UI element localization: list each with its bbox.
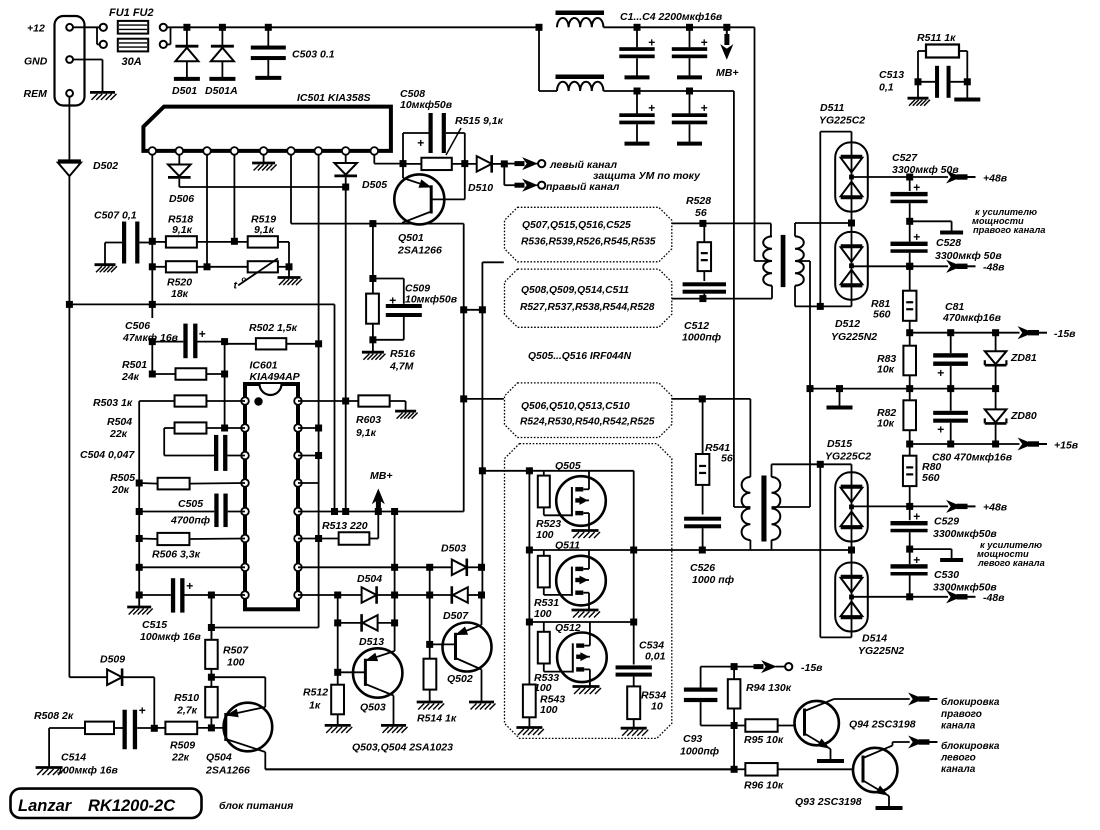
resistor R503 bbox=[175, 395, 207, 406]
svg-text:ZD80: ZD80 bbox=[1010, 410, 1037, 422]
IC601 pin R5 bbox=[294, 508, 302, 516]
IC501 pin5 ground bbox=[263, 155, 265, 163]
wire -15v terminal row bbox=[731, 663, 738, 670]
wire left bus x139 down bbox=[138, 401, 140, 607]
output arrow Q94 bbox=[910, 694, 923, 705]
svg-text:YG225C2: YG225C2 bbox=[825, 451, 871, 463]
wire IC501 pin9 to Q501 emitter junction bbox=[373, 155, 375, 164]
diode D509 bbox=[107, 669, 122, 685]
transistor Q505 MOSFET bbox=[556, 476, 606, 526]
capacitor C506 bbox=[183, 324, 187, 359]
resistor R513 bbox=[339, 532, 370, 545]
rectifier D515 YG225C2 bbox=[851, 464, 853, 472]
svg-text:+: + bbox=[186, 579, 193, 593]
svg-text:D503: D503 bbox=[441, 543, 466, 555]
svg-text:Q505: Q505 bbox=[555, 460, 581, 472]
ground at left bus bbox=[127, 606, 151, 609]
svg-text:R505: R505 bbox=[110, 472, 135, 484]
svg-text:C527: C527 bbox=[892, 152, 918, 164]
svg-text:R527,R537,R538,R544,R528: R527,R537,R538,R544,R528 bbox=[520, 302, 655, 313]
svg-text:1000пф: 1000пф bbox=[682, 332, 721, 344]
inductor L2 bbox=[557, 82, 603, 91]
wire IC601 pinR5 row bbox=[298, 511, 464, 513]
transistor Q512 MOSFET bbox=[557, 633, 607, 683]
svg-text:R514 1к: R514 1к bbox=[417, 713, 457, 725]
wire drain bus x633 down bbox=[633, 471, 635, 665]
svg-text:C93: C93 bbox=[683, 733, 702, 745]
resistor R541 bbox=[696, 454, 710, 485]
wire Q504 collector long row bbox=[265, 768, 734, 770]
wire -48v bottom row bbox=[852, 596, 910, 598]
capacitor C527 bbox=[909, 177, 911, 191]
wire row R7 to D503 bbox=[298, 566, 452, 568]
svg-text:-48в: -48в bbox=[983, 592, 1005, 604]
fuse terminal circles left bbox=[100, 24, 107, 31]
wire lower rail bbox=[539, 90, 557, 92]
diode D501 bbox=[183, 24, 190, 31]
svg-text:MB+: MB+ bbox=[716, 67, 738, 79]
IC601 pin R8 bbox=[294, 591, 302, 599]
ground at thermistor bbox=[288, 267, 290, 278]
resistor R508 bbox=[85, 722, 114, 735]
svg-text:Q501: Q501 bbox=[398, 232, 424, 244]
svg-text:D514: D514 bbox=[862, 633, 887, 645]
svg-text:C526: C526 bbox=[690, 562, 715, 574]
resistor R502 bbox=[256, 338, 286, 349]
svg-text:18к: 18к bbox=[171, 288, 189, 300]
wire mid tap to chassis right ch bbox=[910, 220, 952, 222]
ground at GND bbox=[90, 91, 115, 94]
wire gate lead Q512 bbox=[544, 671, 573, 673]
ground at Q505 bbox=[572, 529, 599, 532]
resistor R520 bbox=[166, 261, 197, 272]
diode D504 bbox=[362, 587, 377, 603]
transistor Q503 2SA1023 bbox=[353, 648, 402, 697]
wire REM pin down bbox=[68, 97, 70, 161]
wire T2 secondary center tap bbox=[772, 506, 811, 508]
capacitor C503 bbox=[265, 24, 272, 31]
svg-text:100мкф 16в: 100мкф 16в bbox=[57, 765, 118, 777]
zener ZD81 bbox=[995, 333, 997, 352]
wire C515 junction down to R507 bbox=[210, 595, 212, 640]
svg-text:YG225N2: YG225N2 bbox=[858, 645, 904, 657]
svg-text:R506 3,3к: R506 3,3к bbox=[152, 549, 201, 561]
svg-text:R511 1к: R511 1к bbox=[917, 32, 956, 44]
svg-text:R603: R603 bbox=[356, 414, 381, 426]
svg-text:C503 0.1: C503 0.1 bbox=[292, 49, 335, 61]
svg-text:10к: 10к bbox=[877, 418, 895, 430]
diode D510 bbox=[477, 156, 492, 172]
IC PWM IC601 KIA494AP body bbox=[245, 384, 298, 609]
svg-text:10мкф50в: 10мкф50в bbox=[405, 294, 458, 306]
svg-text:560: 560 bbox=[922, 472, 940, 484]
svg-text:+48в: +48в bbox=[983, 173, 1008, 185]
logo frame Lanzar RK1200-2C bbox=[11, 789, 202, 818]
svg-text:D506: D506 bbox=[169, 193, 194, 205]
inductor L2 core bbox=[556, 75, 605, 80]
svg-text:9,1к: 9,1к bbox=[254, 224, 275, 236]
transformer T1 bbox=[763, 236, 772, 285]
svg-text:R520: R520 bbox=[167, 277, 192, 289]
diode D507 bbox=[450, 586, 453, 604]
IC601 pin L2 bbox=[241, 424, 249, 432]
wire D515 bottom junction bbox=[851, 542, 853, 563]
resistor R501 bbox=[176, 368, 207, 380]
resistor R506 bbox=[157, 533, 189, 545]
svg-text:+: + bbox=[937, 423, 944, 437]
svg-text:Q502: Q502 bbox=[447, 673, 473, 685]
capacitor C528 bbox=[909, 221, 911, 241]
svg-text:блокировка: блокировка bbox=[941, 740, 1000, 752]
svg-text:2SA1266: 2SA1266 bbox=[205, 765, 250, 777]
svg-text:+: + bbox=[913, 553, 920, 567]
wire gate row Q505 bbox=[479, 467, 486, 474]
wire IC501 pin6 down to Q501 collector row bbox=[290, 155, 292, 224]
svg-text:R94 130к: R94 130к bbox=[746, 682, 792, 694]
MB+ arrow top bbox=[723, 24, 730, 31]
wire +12 main rail bbox=[167, 26, 539, 28]
svg-text:Q508,Q509,Q514,C511: Q508,Q509,Q514,C511 bbox=[521, 285, 629, 296]
svg-text:C1...C4 2200мкф16в: C1...C4 2200мкф16в bbox=[620, 11, 723, 23]
wire T1 secondary bottom bbox=[794, 286, 796, 307]
svg-text:правого: правого bbox=[941, 709, 982, 720]
svg-text:D501A: D501A bbox=[205, 85, 238, 97]
svg-text:D501: D501 bbox=[172, 85, 197, 97]
svg-text:YG225N2: YG225N2 bbox=[831, 331, 877, 343]
svg-text:1000 пф: 1000 пф bbox=[692, 574, 734, 586]
capacitor C514 bbox=[123, 710, 127, 750]
svg-text:D512: D512 bbox=[835, 318, 860, 330]
svg-text:R510: R510 bbox=[174, 692, 199, 704]
svg-text:REM: REM bbox=[24, 88, 48, 100]
svg-text:+: + bbox=[417, 136, 424, 150]
svg-text:R96 10к: R96 10к bbox=[744, 780, 784, 792]
wire box1 output row to T1 bbox=[672, 222, 771, 224]
IC601 pin L8 bbox=[241, 591, 249, 599]
wire box3 output row to T2 bbox=[672, 398, 751, 400]
wire bus x224 down bbox=[224, 342, 226, 428]
ground at Q512 bbox=[573, 685, 600, 688]
wire IC501 pin2 to D506 bbox=[178, 155, 180, 165]
svg-text:R504: R504 bbox=[107, 416, 132, 428]
IC501 pin 3 bbox=[203, 147, 211, 155]
pin +12 bbox=[66, 24, 73, 31]
svg-text:o: o bbox=[242, 275, 247, 284]
IC601 pin L6 bbox=[241, 535, 249, 543]
svg-text:47мкф 16в: 47мкф 16в bbox=[122, 332, 179, 344]
wire IC501 pin1 down bbox=[151, 155, 153, 318]
svg-text:t: t bbox=[234, 280, 238, 292]
svg-text:Q511: Q511 bbox=[555, 540, 580, 552]
svg-text:левого: левого bbox=[940, 753, 976, 764]
wire D514 bottom bypass bbox=[851, 632, 853, 638]
svg-text:правый канал: правый канал bbox=[546, 181, 620, 193]
svg-text:+: + bbox=[701, 101, 708, 115]
resistor R505 bbox=[158, 478, 190, 490]
svg-text:C507 0,1: C507 0,1 bbox=[94, 210, 137, 222]
IC601 pin L3 bbox=[241, 452, 249, 460]
resistor R96 bbox=[745, 763, 777, 776]
resistor R518 bbox=[166, 236, 197, 247]
IC501 pin 8 bbox=[342, 147, 350, 155]
wire -48v top row bbox=[852, 265, 910, 267]
wire D513 row bbox=[334, 619, 341, 626]
wire box3 input row bbox=[464, 398, 504, 400]
svg-text:+: + bbox=[913, 181, 920, 195]
chassis at C513 right bbox=[966, 82, 968, 98]
capacitor C80 bbox=[950, 389, 952, 411]
ground at Q511 bbox=[572, 609, 599, 612]
svg-text:блок питания: блок питания bbox=[219, 800, 293, 812]
resistor R533 bbox=[538, 632, 550, 664]
resistor R516 bbox=[372, 224, 374, 294]
svg-text:100: 100 bbox=[540, 704, 558, 716]
wire row L7 bbox=[136, 564, 143, 571]
svg-text:+: + bbox=[913, 510, 920, 524]
resistor R519 bbox=[248, 236, 278, 247]
svg-text:правого канала: правого канала bbox=[973, 225, 1045, 235]
svg-text:D507: D507 bbox=[443, 610, 469, 622]
svg-text:ZD81: ZD81 bbox=[1010, 352, 1037, 364]
resistor R94 bbox=[733, 667, 735, 680]
svg-text:56: 56 bbox=[721, 453, 733, 465]
resistor R531 bbox=[538, 556, 550, 588]
svg-text:+: + bbox=[139, 704, 146, 718]
svg-text:2,7к: 2,7к bbox=[176, 705, 198, 717]
IC601 pin L1 bbox=[241, 397, 249, 405]
wire T2 primary bottom bbox=[749, 540, 751, 550]
wire D511 top bypass bbox=[851, 132, 853, 143]
wire row Q511 drain bbox=[529, 549, 851, 551]
svg-text:C528: C528 bbox=[936, 237, 961, 249]
capacitor C508 bbox=[429, 113, 433, 153]
IC501 pin 9 bbox=[371, 147, 379, 155]
fuse FU1 bbox=[118, 21, 148, 34]
transistor Q511 MOSFET bbox=[556, 556, 606, 606]
svg-text:R524,R530,R540,R542,R525: R524,R530,R540,R542,R525 bbox=[520, 417, 655, 428]
resistor R512 bbox=[331, 685, 344, 715]
svg-text:R528: R528 bbox=[686, 195, 711, 207]
pin REM bbox=[66, 90, 73, 97]
wire row R8 to D504 D507 chain bbox=[298, 594, 362, 596]
resistor R95 bbox=[745, 719, 777, 732]
svg-text:4,7М: 4,7М bbox=[389, 361, 414, 373]
svg-text:+: + bbox=[389, 294, 396, 308]
svg-text:C515: C515 bbox=[142, 619, 167, 631]
svg-text:+: + bbox=[701, 36, 708, 50]
svg-text:56: 56 bbox=[695, 207, 707, 219]
svg-text:D511: D511 bbox=[820, 102, 844, 114]
svg-text:R502 1,5к: R502 1,5к bbox=[249, 322, 298, 334]
wire rail after L1 bbox=[603, 26, 754, 28]
wire IC501 pin3 down bbox=[206, 155, 208, 267]
svg-text:24к: 24к bbox=[121, 371, 140, 383]
rectifier D512 YG225N2 bbox=[835, 232, 868, 300]
capacitor C2 bbox=[686, 24, 693, 31]
wire D512 bottom bbox=[851, 300, 853, 307]
svg-text:R95 10к: R95 10к bbox=[744, 734, 784, 746]
svg-text:30A: 30A bbox=[122, 56, 142, 68]
diode D503 bbox=[452, 560, 467, 576]
svg-text:-48в: -48в bbox=[983, 262, 1005, 274]
svg-text:R512: R512 bbox=[303, 687, 328, 699]
diode D505 on pin8 wire bbox=[345, 155, 347, 163]
IC601 pin R2 bbox=[294, 424, 302, 432]
svg-text:FU1 FU2: FU1 FU2 bbox=[109, 7, 154, 19]
rectifier D514 YG225N2 bbox=[835, 563, 868, 632]
svg-text:R503 1к: R503 1к bbox=[93, 397, 133, 409]
transistor Q504 2SA1266 bbox=[224, 703, 273, 752]
resistor R603 bbox=[358, 395, 389, 406]
svg-text:R515 9,1к: R515 9,1к bbox=[455, 115, 504, 127]
capacitor C507 bbox=[122, 222, 126, 264]
wire IC501 pin7 bus down bbox=[318, 155, 320, 344]
svg-text:0,1: 0,1 bbox=[879, 82, 894, 94]
resistor R504 bbox=[175, 422, 207, 433]
IC501 pin 1 bbox=[149, 147, 157, 155]
wire bus x394 from R5 row down bbox=[394, 512, 396, 649]
resistor R83 bbox=[909, 333, 911, 346]
group box Q505 Q511 Q512 bbox=[505, 444, 672, 739]
svg-text:Q505...Q516 IRF044N: Q505...Q516 IRF044N bbox=[528, 351, 632, 362]
capacitor C534 bbox=[616, 665, 652, 669]
svg-text:22к: 22к bbox=[171, 752, 190, 764]
svg-text:+: + bbox=[937, 366, 944, 380]
svg-text:100: 100 bbox=[227, 657, 245, 669]
capacitor C1 bbox=[634, 24, 641, 31]
svg-text:+48в: +48в bbox=[983, 502, 1008, 514]
svg-text:MB+: MB+ bbox=[370, 470, 392, 482]
svg-text:R508 2к: R508 2к bbox=[34, 710, 74, 722]
svg-text:470мкф16в: 470мкф16в bbox=[942, 312, 1002, 324]
transistor Q93 2SC3198 bbox=[853, 748, 897, 792]
svg-text:10мкф50в: 10мкф50в bbox=[400, 99, 453, 111]
svg-text:C505: C505 bbox=[178, 498, 203, 510]
ground at R516 bbox=[362, 351, 384, 354]
capacitor C4 bbox=[686, 88, 693, 95]
svg-text:C504 0,047: C504 0,047 bbox=[80, 449, 135, 461]
ground at Q503 bbox=[381, 724, 406, 727]
svg-text:R513 220: R513 220 bbox=[322, 520, 368, 532]
wire rail to T1 center bus bbox=[754, 27, 756, 261]
wire IC601 pinR6 to bus bbox=[298, 538, 319, 540]
svg-text:10к: 10к bbox=[877, 364, 895, 376]
svg-text:100: 100 bbox=[534, 608, 552, 620]
capacitor C81 bbox=[950, 333, 952, 354]
wire bus x337 down to R512 bbox=[337, 595, 339, 685]
resistor R534 bbox=[627, 686, 640, 719]
capacitor C505 bbox=[214, 494, 218, 528]
resistor R511 bbox=[926, 45, 959, 58]
pointer line R515 bbox=[446, 128, 461, 155]
wire bus Q501 collector down bbox=[463, 224, 465, 512]
IC501 pin 4 bbox=[231, 147, 239, 155]
svg-text:D502: D502 bbox=[93, 160, 118, 172]
svg-text:22к: 22к bbox=[109, 428, 128, 440]
wire +48v top row bbox=[852, 176, 910, 178]
wire T1 secondary center tap bbox=[795, 260, 810, 262]
svg-text:0,01: 0,01 bbox=[645, 651, 666, 663]
svg-text:100мкф 16в: 100мкф 16в bbox=[140, 631, 201, 643]
svg-text:-15в: -15в bbox=[801, 662, 823, 674]
svg-text:C80 470мкф16в: C80 470мкф16в bbox=[932, 452, 1013, 464]
svg-text:C506: C506 bbox=[125, 320, 150, 332]
IC501 pin 6 bbox=[287, 147, 295, 155]
capacitor C512 bbox=[703, 271, 705, 281]
wire IC601 pinR4 to bus bbox=[298, 482, 319, 484]
svg-text:IC501 KIA358S: IC501 KIA358S bbox=[297, 92, 371, 104]
svg-text:GND: GND bbox=[24, 56, 48, 68]
svg-text:-15в: -15в bbox=[1054, 328, 1076, 340]
wire rail junction down to lower filter bbox=[536, 24, 543, 31]
svg-text:3300мкф 50в: 3300мкф 50в bbox=[935, 250, 1002, 262]
zener ZD80 bbox=[995, 389, 997, 410]
svg-text:C512: C512 bbox=[684, 320, 709, 332]
svg-text:Q503,Q504 2SA1023: Q503,Q504 2SA1023 bbox=[352, 742, 453, 754]
output arrow Q93 bbox=[910, 737, 923, 748]
wire fuse right join bbox=[167, 43, 171, 45]
svg-text:D510: D510 bbox=[468, 182, 493, 194]
svg-text:20к: 20к bbox=[111, 484, 130, 496]
pin GND bbox=[66, 56, 73, 63]
wire mid rail bbox=[809, 388, 996, 390]
protection output left channel bbox=[504, 163, 515, 165]
wire +48v bottom row bbox=[852, 505, 910, 507]
svg-text:Q507,Q515,Q516,C525: Q507,Q515,Q516,C525 bbox=[522, 220, 631, 231]
svg-text:Q93 2SC3198: Q93 2SC3198 bbox=[795, 796, 862, 808]
wire +15v rail bbox=[906, 441, 913, 448]
wire GND pin to ground bbox=[73, 59, 103, 61]
wire pin8 bus below R603 row bbox=[345, 401, 347, 512]
wire T1 primary center tap bbox=[755, 260, 773, 262]
svg-text:Q94 2SC3198: Q94 2SC3198 bbox=[849, 719, 916, 731]
resistor R507 bbox=[210, 628, 212, 640]
svg-text:10: 10 bbox=[651, 701, 663, 713]
svg-text:D515: D515 bbox=[827, 438, 852, 450]
IC501 pin 7 bbox=[315, 147, 323, 155]
svg-text:4700пф: 4700пф bbox=[170, 515, 210, 527]
ground at R603 bbox=[395, 410, 416, 413]
svg-text:9,1к: 9,1к bbox=[356, 427, 377, 439]
inductor L1 bbox=[557, 18, 603, 27]
svg-text:3300мкф50в: 3300мкф50в bbox=[933, 528, 997, 540]
svg-text:C514: C514 bbox=[61, 752, 86, 764]
svg-text:+15в: +15в bbox=[1054, 440, 1079, 452]
svg-text:R509: R509 bbox=[170, 740, 195, 752]
ground at R534 bbox=[621, 727, 647, 730]
wire jog to box1 bus bbox=[464, 309, 483, 311]
transistor Q94 2SC3198 bbox=[795, 701, 839, 745]
wire IC501 pin4 down bbox=[233, 155, 235, 242]
svg-text:Q503: Q503 bbox=[360, 702, 386, 714]
wire IC601 pinR3 to bus bbox=[298, 455, 319, 457]
protection output right channel bbox=[503, 164, 505, 186]
IC601 pin L7 bbox=[241, 564, 249, 572]
IC601 pin R1 bbox=[294, 397, 302, 405]
svg-text:R536,R539,R526,R545,R535: R536,R539,R526,R545,R535 bbox=[521, 237, 656, 248]
diode D502 bbox=[58, 159, 81, 162]
IC601 pin R6 bbox=[294, 535, 302, 543]
svg-text:2SA1266: 2SA1266 bbox=[397, 245, 442, 257]
MB+ arrow mid bbox=[377, 503, 379, 512]
wire feedback row to R502 bus bbox=[211, 627, 318, 629]
wire +12 pin to fuse terminals bbox=[73, 26, 100, 28]
resistor R515 bbox=[400, 160, 407, 167]
svg-text:защита УМ по току: защита УМ по току bbox=[593, 170, 701, 182]
IC601 pin R4 bbox=[294, 479, 302, 487]
capacitor C515 bbox=[171, 578, 175, 612]
input connector X1 bbox=[55, 16, 85, 106]
